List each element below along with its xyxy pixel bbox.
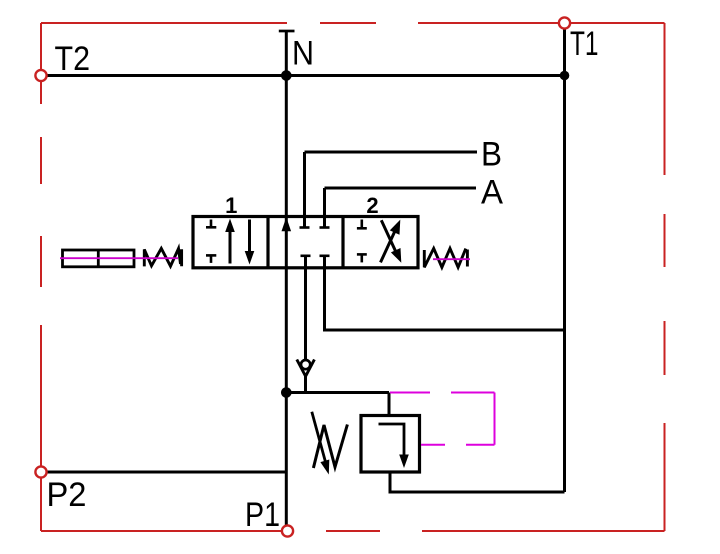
valve box3 blocked port bottom [357, 254, 367, 262]
spring right of valve [424, 248, 467, 267]
valve box2 blocked stub top A [320, 226, 330, 229]
svg-text:2: 2 [366, 193, 378, 218]
wire below check symbol to junction [304, 375, 307, 393]
enclosure dashed border right [664, 23, 666, 531]
wire relief valve outlet [390, 472, 565, 492]
check symbol circle-V on B drain [297, 360, 315, 377]
wire T2 line [47, 74, 565, 77]
wire T1 vertical line [563, 29, 566, 493]
svg-text:P1: P1 [245, 496, 280, 534]
valve box2 blocked stub bottom B [301, 255, 311, 258]
wire valve bottom port A side down and right to T1 [325, 256, 565, 330]
wire B vertical drop to valve [303, 152, 306, 228]
wire A vertical drop to valve [323, 188, 326, 228]
wire relief valve inlet [388, 393, 391, 417]
valve box2 blocked stub top B [300, 226, 310, 229]
svg-text:B: B [481, 135, 502, 173]
enclosure dashed border bottom [41, 530, 665, 532]
pilot line magenta left [60, 257, 178, 259]
port P2 circle [35, 466, 46, 477]
node junction T1 x T2 [560, 71, 570, 81]
detent actuator two-cell box left [63, 250, 135, 267]
port T1 circle [559, 17, 570, 28]
valve box1 down arrow [245, 220, 255, 265]
wire junction horizontal to relief valve [286, 391, 389, 394]
enclosure dashed border top [41, 22, 665, 24]
wire N vertical line [285, 31, 288, 526]
valve box1 blocked port bottom [206, 255, 216, 263]
svg-text:A: A [481, 174, 503, 212]
valve box3 crossed arrow up [381, 220, 401, 263]
svg-text:N: N [292, 35, 314, 73]
valve V1 body (3-position) [193, 217, 418, 268]
wire N plug crossbar [279, 30, 295, 33]
valve box1 blocked port top [206, 220, 216, 228]
valve box1 up arrow [225, 219, 235, 264]
node junction N x T2 [281, 70, 292, 81]
enclosure dashed border left [40, 23, 42, 531]
relief valve adjustable spring [312, 412, 348, 475]
wire B horizontal line [305, 151, 478, 154]
svg-text:T2: T2 [55, 40, 91, 78]
port T2 circle [35, 70, 46, 81]
wire valve bottom port B side down [304, 256, 307, 360]
svg-text:1: 1 [225, 193, 237, 218]
relief valve internal bent arrow [379, 424, 409, 468]
node junction N x relief feed [281, 387, 292, 398]
port P1 circle [282, 525, 293, 536]
wire A horizontal line [325, 187, 477, 190]
valve box3 crossed arrow down [381, 220, 401, 263]
pilot line magenta right [433, 258, 470, 260]
svg-text:T1: T1 [570, 25, 599, 63]
valve box2 blocked stub bottom A [320, 255, 330, 258]
spring left of valve [144, 248, 181, 266]
relief valve RV1 body [361, 416, 420, 473]
svg-text:P2: P2 [47, 476, 87, 514]
pilot line magenta dashed to relief valve [390, 393, 495, 445]
valve box3 blocked port top [357, 220, 367, 229]
valve box2 through arrow head on N line [282, 217, 292, 231]
wire P2 line [47, 471, 287, 474]
